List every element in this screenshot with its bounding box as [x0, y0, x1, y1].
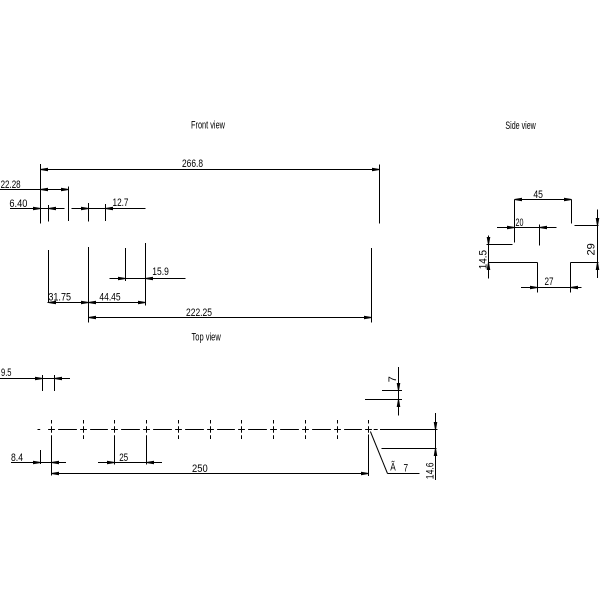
svg-text:25: 25 — [119, 452, 128, 464]
svg-text:8.4: 8.4 — [11, 452, 23, 464]
svg-text:44.45: 44.45 — [99, 292, 120, 304]
svg-text:6.40: 6.40 — [9, 198, 27, 210]
svg-text:9.5: 9.5 — [1, 367, 12, 379]
svg-text:45: 45 — [533, 189, 543, 201]
svg-text:29: 29 — [585, 243, 597, 255]
svg-text:22.28: 22.28 — [1, 179, 21, 191]
svg-text:14.6: 14.6 — [425, 462, 437, 479]
svg-text:Side view: Side view — [505, 120, 535, 132]
svg-text:7: 7 — [404, 462, 409, 474]
svg-text:31.75: 31.75 — [48, 292, 71, 304]
svg-text:222.25: 222.25 — [186, 307, 212, 319]
svg-text:7: 7 — [387, 376, 399, 382]
svg-text:Top view: Top view — [192, 332, 221, 344]
svg-text:20: 20 — [516, 217, 524, 229]
svg-text:Front view: Front view — [191, 120, 225, 132]
svg-text:14.5: 14.5 — [477, 250, 489, 269]
svg-text:15.9: 15.9 — [152, 266, 169, 278]
svg-text:266.8: 266.8 — [182, 158, 203, 170]
svg-text:12.7: 12.7 — [113, 197, 129, 209]
svg-text:27: 27 — [545, 276, 554, 288]
svg-text:Ã: Ã — [390, 461, 396, 474]
svg-text:250: 250 — [192, 463, 208, 475]
